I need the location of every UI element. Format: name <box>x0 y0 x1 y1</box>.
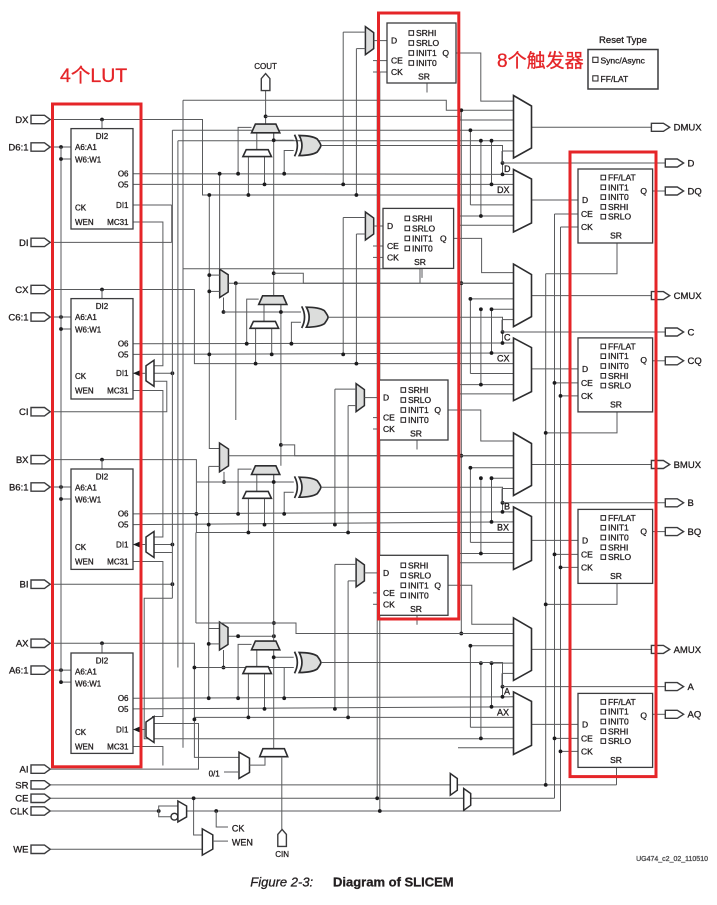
svg-text:FF/LAT: FF/LAT <box>608 341 636 351</box>
svg-text:SRHI: SRHI <box>408 385 428 395</box>
svg-text:CIN: CIN <box>275 850 289 859</box>
svg-text:CK: CK <box>391 67 403 77</box>
svg-text:D: D <box>387 221 393 231</box>
svg-text:Q: Q <box>640 526 647 536</box>
svg-text:AX: AX <box>497 707 509 717</box>
svg-text:SRLO: SRLO <box>608 736 632 746</box>
svg-text:FF/LAT: FF/LAT <box>608 173 636 183</box>
svg-text:D: D <box>383 568 389 578</box>
svg-text:Q: Q <box>434 405 441 415</box>
svg-text:A6:A1: A6:A1 <box>75 667 97 676</box>
svg-text:D: D <box>582 364 588 374</box>
svg-text:FF/LAT: FF/LAT <box>608 697 636 707</box>
svg-text:D: D <box>582 719 588 729</box>
svg-text:BI: BI <box>20 580 29 591</box>
svg-text:INIT1: INIT1 <box>408 580 429 590</box>
svg-text:CK: CK <box>581 391 593 401</box>
svg-text:D: D <box>688 158 695 169</box>
svg-text:CK: CK <box>75 372 87 381</box>
svg-text:Q: Q <box>640 186 647 196</box>
svg-text:D: D <box>391 36 397 46</box>
svg-text:INIT1: INIT1 <box>608 523 629 533</box>
svg-text:O5: O5 <box>118 350 129 359</box>
svg-text:O5: O5 <box>118 180 129 189</box>
svg-text:SR: SR <box>15 780 28 791</box>
svg-text:CQ: CQ <box>688 356 702 367</box>
svg-text:DI2: DI2 <box>96 472 109 481</box>
svg-text:CLK: CLK <box>10 806 29 817</box>
svg-text:COUT: COUT <box>254 62 277 71</box>
svg-text:INIT0: INIT0 <box>608 192 629 202</box>
svg-text:W6:W1: W6:W1 <box>75 496 102 505</box>
svg-text:INIT1: INIT1 <box>412 233 433 243</box>
svg-text:CK: CK <box>75 728 87 737</box>
svg-text:C: C <box>688 327 695 338</box>
svg-text:INIT0: INIT0 <box>608 533 629 543</box>
svg-text:CK: CK <box>581 746 593 756</box>
svg-text:D: D <box>383 393 389 403</box>
svg-text:O6: O6 <box>118 694 129 703</box>
svg-text:WEN: WEN <box>232 838 253 848</box>
svg-text:SRLO: SRLO <box>408 395 432 405</box>
svg-text:AMUX: AMUX <box>674 645 702 656</box>
svg-text:CX: CX <box>497 354 510 364</box>
svg-text:Sync/Async: Sync/Async <box>601 55 646 65</box>
svg-text:DI2: DI2 <box>96 302 109 311</box>
svg-text:CK: CK <box>75 543 87 552</box>
svg-text:MC31: MC31 <box>107 218 129 227</box>
svg-text:0/1: 0/1 <box>209 770 221 779</box>
svg-text:D6:1: D6:1 <box>8 142 28 153</box>
svg-text:Q: Q <box>434 580 441 590</box>
svg-text:D: D <box>582 195 588 205</box>
svg-text:DI: DI <box>19 238 29 249</box>
svg-text:A: A <box>504 686 510 696</box>
svg-text:BQ: BQ <box>688 527 702 538</box>
svg-text:CE: CE <box>581 378 593 388</box>
svg-text:INIT0: INIT0 <box>408 590 429 600</box>
svg-text:SRLO: SRLO <box>416 38 440 48</box>
svg-text:CK: CK <box>75 204 87 213</box>
svg-text:Q: Q <box>442 48 449 58</box>
svg-text:SRLO: SRLO <box>608 552 632 562</box>
svg-text:Q: Q <box>640 355 647 365</box>
svg-text:WEN: WEN <box>75 558 94 567</box>
svg-text:D: D <box>504 164 511 174</box>
svg-text:INIT0: INIT0 <box>608 717 629 727</box>
svg-text:B6:1: B6:1 <box>9 482 29 493</box>
svg-text:AQ: AQ <box>688 710 702 721</box>
svg-text:O5: O5 <box>118 705 129 714</box>
svg-text:SR: SR <box>414 257 426 267</box>
svg-text:CE: CE <box>581 549 593 559</box>
svg-text:A6:1: A6:1 <box>9 666 29 677</box>
svg-text:FF/LAT: FF/LAT <box>608 513 636 523</box>
svg-text:FF/LAT: FF/LAT <box>601 74 629 84</box>
svg-text:O6: O6 <box>118 170 129 179</box>
svg-text:AX: AX <box>16 639 29 650</box>
svg-text:SR: SR <box>610 231 622 241</box>
svg-text:W6:W1: W6:W1 <box>75 325 102 334</box>
svg-text:CE: CE <box>581 209 593 219</box>
svg-text:SRHI: SRHI <box>412 213 432 223</box>
svg-text:4个LUT: 4个LUT <box>60 65 127 87</box>
svg-text:CE: CE <box>383 413 395 423</box>
svg-text:INIT1: INIT1 <box>608 707 629 717</box>
svg-text:WEN: WEN <box>75 218 94 227</box>
svg-text:CMUX: CMUX <box>674 291 703 302</box>
svg-text:INIT1: INIT1 <box>608 351 629 361</box>
svg-text:SRLO: SRLO <box>408 570 432 580</box>
svg-text:A6:A1: A6:A1 <box>75 313 97 322</box>
svg-text:CK: CK <box>581 222 593 232</box>
svg-text:SRHI: SRHI <box>408 560 428 570</box>
svg-text:SR: SR <box>418 72 430 82</box>
svg-text:INIT0: INIT0 <box>608 361 629 371</box>
svg-text:INIT1: INIT1 <box>408 405 429 415</box>
svg-text:WE: WE <box>13 845 28 856</box>
svg-text:O6: O6 <box>118 340 129 349</box>
svg-text:MC31: MC31 <box>107 558 129 567</box>
svg-text:MC31: MC31 <box>107 387 129 396</box>
svg-text:WEN: WEN <box>75 743 94 752</box>
svg-text:SRHI: SRHI <box>416 28 436 38</box>
svg-text:DMUX: DMUX <box>674 123 703 134</box>
svg-text:SRHI: SRHI <box>608 542 628 552</box>
svg-text:UG474_c2_02_110510: UG474_c2_02_110510 <box>636 856 708 863</box>
svg-text:Diagram of SLICEM: Diagram of SLICEM <box>333 875 454 890</box>
svg-text:A: A <box>688 682 695 693</box>
svg-text:INIT0: INIT0 <box>408 415 429 425</box>
svg-text:INIT1: INIT1 <box>416 48 437 58</box>
svg-text:B: B <box>688 498 694 509</box>
svg-text:DI2: DI2 <box>96 132 109 141</box>
svg-text:BX: BX <box>497 523 509 533</box>
svg-text:W6:W1: W6:W1 <box>75 680 102 689</box>
svg-text:O6: O6 <box>118 510 129 519</box>
svg-text:8个触发器: 8个触发器 <box>497 50 584 72</box>
svg-text:SR: SR <box>610 399 622 409</box>
svg-text:CI: CI <box>19 407 29 418</box>
svg-text:SRHI: SRHI <box>608 726 628 736</box>
svg-text:DQ: DQ <box>688 186 702 197</box>
svg-text:CK: CK <box>383 424 395 434</box>
svg-text:DX: DX <box>497 185 510 195</box>
svg-text:O5: O5 <box>118 521 129 530</box>
svg-text:C6:1: C6:1 <box>8 312 28 323</box>
svg-text:SRLO: SRLO <box>608 381 632 391</box>
svg-text:SR: SR <box>410 429 422 439</box>
svg-text:DI1: DI1 <box>116 369 129 378</box>
svg-text:SRLO: SRLO <box>608 212 632 222</box>
svg-text:CK: CK <box>581 562 593 572</box>
svg-text:CE: CE <box>391 56 403 66</box>
svg-text:B: B <box>504 502 510 512</box>
svg-text:CE: CE <box>383 588 395 598</box>
svg-text:DI1: DI1 <box>116 201 129 210</box>
svg-text:Q: Q <box>640 710 647 720</box>
svg-text:CK: CK <box>383 599 395 609</box>
svg-text:Reset Type: Reset Type <box>599 35 647 46</box>
svg-text:MC31: MC31 <box>107 743 129 752</box>
svg-text:DX: DX <box>15 115 29 126</box>
svg-text:CK: CK <box>387 252 399 262</box>
svg-text:AI: AI <box>20 765 29 776</box>
svg-text:BX: BX <box>16 455 29 466</box>
svg-text:SRHI: SRHI <box>608 202 628 212</box>
svg-text:WEN: WEN <box>75 387 94 396</box>
svg-text:DI2: DI2 <box>96 656 109 665</box>
svg-text:SRHI: SRHI <box>608 371 628 381</box>
svg-text:SR: SR <box>410 604 422 614</box>
svg-text:A6:A1: A6:A1 <box>75 143 97 152</box>
svg-text:BMUX: BMUX <box>674 460 702 471</box>
svg-text:DI1: DI1 <box>116 540 129 549</box>
svg-text:Q: Q <box>440 233 447 243</box>
svg-text:SR: SR <box>610 755 622 765</box>
svg-text:INIT0: INIT0 <box>416 58 437 68</box>
svg-text:C: C <box>504 333 511 343</box>
svg-text:SRLO: SRLO <box>412 223 436 233</box>
svg-text:D: D <box>582 535 588 545</box>
svg-text:CX: CX <box>15 285 29 296</box>
svg-text:A6:A1: A6:A1 <box>75 483 97 492</box>
svg-text:INIT1: INIT1 <box>608 182 629 192</box>
svg-text:Figure 2-3:: Figure 2-3: <box>250 875 313 890</box>
svg-text:DI1: DI1 <box>116 725 129 734</box>
svg-text:CE: CE <box>15 794 28 805</box>
svg-text:CK: CK <box>232 823 245 833</box>
svg-text:W6:W1: W6:W1 <box>75 155 102 164</box>
svg-text:CE: CE <box>387 241 399 251</box>
svg-text:CE: CE <box>581 733 593 743</box>
svg-text:SR: SR <box>610 571 622 581</box>
svg-text:INIT0: INIT0 <box>412 243 433 253</box>
